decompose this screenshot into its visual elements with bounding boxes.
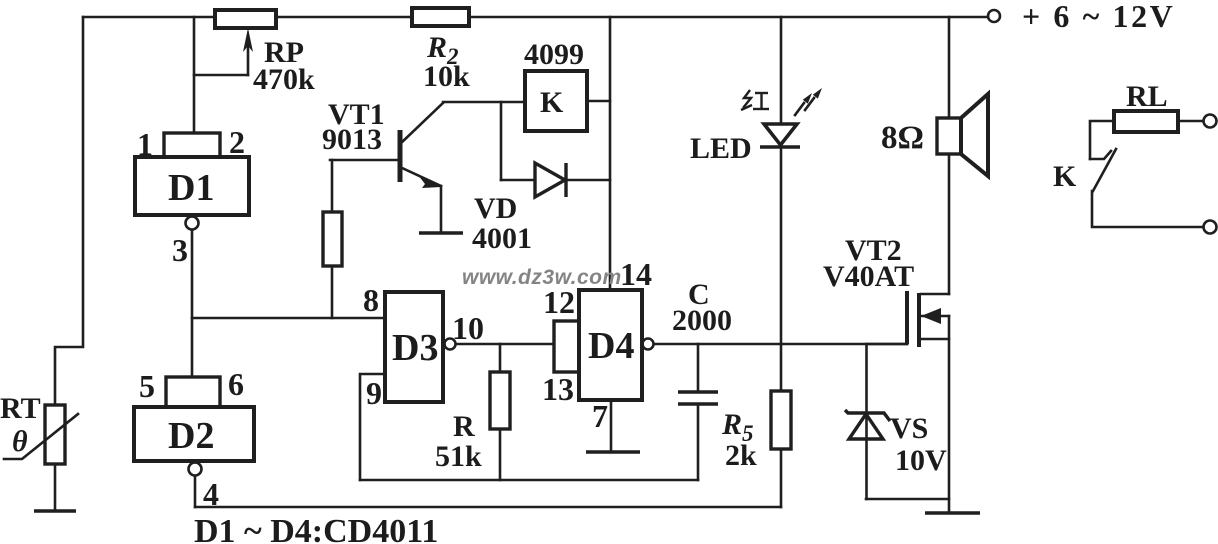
svg-text:θ: θ: [12, 425, 28, 458]
wire D4 pin7: [610, 400, 613, 452]
svg-text:4099: 4099: [524, 38, 584, 71]
wire top rail left: [83, 16, 215, 19]
svg-text:V40AT: V40AT: [823, 260, 914, 293]
gate D1 input pin block: [164, 133, 220, 157]
ground VT2 source: [925, 511, 980, 514]
gate D2 input pin block: [166, 377, 220, 407]
gate D4 output bubble: [643, 339, 654, 350]
svg-text:D4: D4: [588, 325, 634, 367]
gate D4 input pin block: [554, 321, 579, 372]
ground VT1 emitter: [419, 231, 463, 234]
wire D3 out to D4 in: [456, 343, 554, 346]
gate D3 output bubble: [445, 339, 456, 350]
resistor R2 body: [412, 8, 469, 26]
svg-text:2k: 2k: [725, 439, 757, 472]
wire D2 pin4 down: [194, 476, 197, 507]
svg-text:9013: 9013: [322, 123, 382, 156]
potentiometer RP body: [215, 10, 276, 28]
wire VT1 collector to K: [443, 101, 525, 104]
svg-text:VD: VD: [474, 192, 517, 225]
svg-text:8Ω: 8Ω: [881, 120, 924, 156]
svg-text:4001: 4001: [472, 222, 532, 255]
wire feedback bottom: [360, 479, 698, 482]
wire VS to source: [866, 498, 949, 501]
svg-text:10: 10: [452, 310, 484, 346]
svg-text:6: 6: [228, 366, 244, 402]
ground D4 pin7: [586, 450, 640, 453]
svg-text:D2: D2: [168, 415, 214, 457]
potentiometer RP wiper arrow: [243, 28, 253, 75]
svg-text:D1: D1: [168, 167, 214, 209]
svg-text:VS: VS: [890, 412, 928, 445]
LED light arrows: [795, 88, 822, 115]
svg-text:R: R: [453, 410, 475, 443]
svg-text:+ 6 ~ 12V: + 6 ~ 12V: [1022, 0, 1175, 34]
wire VT2 source down: [948, 316, 951, 513]
svg-text:10V: 10V: [895, 444, 947, 477]
thermistor RT body: [4, 405, 78, 464]
wire base resistor bottom: [331, 266, 334, 318]
terminal bottom right: [1204, 221, 1217, 234]
wire K right: [587, 100, 610, 103]
gate D2 output bubble: [189, 463, 202, 476]
node mid junction wire to D3 pin8: [192, 317, 385, 320]
wire D4 out to gate: [654, 343, 907, 346]
wire LED drop from rail: [780, 17, 783, 123]
gate D4 body: [579, 290, 642, 400]
terminal RL right: [1204, 115, 1217, 128]
wire base resistor top: [331, 160, 334, 212]
diode VD: [501, 163, 610, 197]
wire top rail mid: [276, 16, 412, 19]
capacitor C: [678, 344, 718, 480]
svg-text:5: 5: [139, 368, 155, 404]
wire VT1 emitter down: [440, 186, 443, 233]
svg-text:K: K: [540, 86, 564, 119]
resistor base R body: [323, 212, 342, 266]
resistor R body: [490, 372, 510, 429]
label red: [741, 90, 769, 110]
gate D2 body: [134, 407, 254, 461]
wire D1 out vertical: [191, 230, 194, 377]
speaker BL: [937, 94, 988, 176]
gate D1 output bubble: [186, 217, 199, 230]
wire switch to terminal: [1092, 191, 1203, 227]
svg-text:2000: 2000: [672, 304, 732, 337]
wire LED to R5: [780, 147, 783, 391]
wire pin4 horizontal run: [195, 506, 781, 509]
wire R5 bottom: [780, 449, 783, 507]
terminal +V: [988, 10, 1000, 22]
wire D3 pin9: [360, 374, 385, 480]
svg-text:12: 12: [543, 284, 575, 320]
resistor RL body: [1114, 111, 1178, 132]
resistor R5 body: [771, 391, 791, 449]
wire diode anode drop: [500, 102, 503, 180]
svg-text:RL: RL: [1126, 80, 1168, 113]
wire rail to speaker: [948, 17, 951, 118]
relay K body: [525, 71, 587, 131]
svg-text:www.dz3w.com: www.dz3w.com: [462, 266, 622, 289]
wire RP wiper to node: [194, 74, 248, 77]
wire RL right to terminal: [1178, 120, 1203, 123]
svg-text:14: 14: [620, 256, 652, 292]
gate D1 body: [135, 157, 249, 215]
svg-text:2: 2: [229, 124, 245, 160]
svg-text:9: 9: [366, 375, 382, 411]
wire node to D1 input: [193, 17, 196, 133]
svg-text:7: 7: [592, 398, 608, 434]
wire left vertical: [55, 17, 83, 405]
svg-text:13: 13: [542, 371, 574, 407]
transistor VT2 mosfet: [907, 291, 949, 347]
svg-text:K: K: [1053, 160, 1077, 193]
zener VS: [845, 410, 890, 439]
svg-text:10k: 10k: [423, 60, 470, 93]
svg-text:51k: 51k: [435, 440, 482, 473]
gate D3 body: [385, 292, 443, 402]
wire VT2 drain up: [948, 154, 951, 294]
switch K: [1090, 149, 1116, 191]
LED D: [760, 124, 800, 147]
svg-text:LED: LED: [690, 132, 752, 165]
ground RT: [34, 509, 76, 512]
svg-text:470k: 470k: [253, 63, 315, 96]
wire RL left to switch: [1090, 121, 1114, 159]
wire R bottom: [499, 429, 502, 480]
wire top rail right: [469, 16, 988, 19]
wire RT to ground: [54, 464, 57, 511]
wire V rail to D4 pin14: [609, 17, 612, 290]
wire VT1 base: [330, 159, 398, 162]
transistor VT1: [400, 103, 443, 188]
wire gate from D4: [867, 343, 907, 346]
wire zener drop: [865, 344, 868, 499]
svg-text:D3: D3: [392, 327, 438, 369]
svg-text:3: 3: [172, 232, 188, 268]
wire R top: [499, 344, 502, 372]
svg-text:RT: RT: [0, 392, 41, 425]
svg-text:D1 ~ D4:CD4011: D1 ~ D4:CD4011: [194, 513, 438, 544]
svg-text:8: 8: [363, 282, 379, 318]
